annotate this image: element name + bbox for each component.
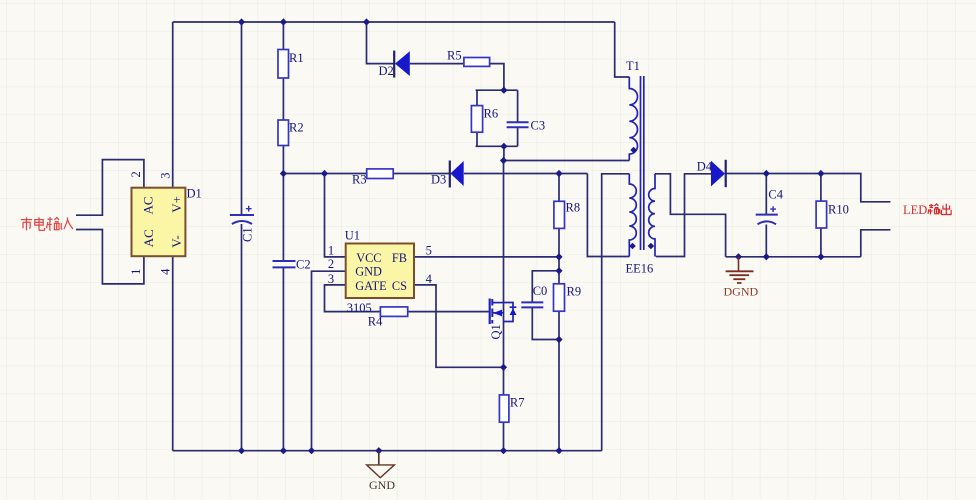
wire U1 pin2 GND [312,271,346,451]
svg-text:D4: D4 [697,160,713,174]
svg-text:C3: C3 [531,119,546,133]
svg-text:AC: AC [140,196,155,214]
junction main line at R8 [555,170,562,177]
transformer T1 primary winding [629,77,637,161]
wire C4 stubs [765,174,767,257]
svg-text:R7: R7 [510,396,525,410]
diode D3 [449,161,451,188]
junction output top C4 [763,170,770,177]
wire U1 pin1 VCC [325,174,346,257]
svg-text:D1: D1 [187,187,202,201]
svg-text:GND: GND [355,264,382,278]
wire R6 stubs [476,90,478,146]
wire R10 stubs [820,174,822,257]
svg-text:C0: C0 [533,284,548,298]
glyph chu (LED output) [942,204,952,215]
transistor Q1 gate bar [489,299,491,325]
resistor R10 [816,201,827,228]
wire clamp top bar [476,89,518,91]
svg-text:D2: D2 [379,64,394,78]
svg-text:R5: R5 [447,48,462,62]
resistor R9 [554,284,565,311]
diode D4 [725,160,727,187]
svg-text:FB: FB [392,251,407,265]
junction main line at R2 C2 [280,170,287,177]
svg-text:R6: R6 [484,107,499,121]
wire secondary top zigzag [655,174,726,257]
transformer T1 core [641,76,644,250]
wire C1 branch lower [241,224,243,451]
junction DGND rail R10 [817,253,824,260]
capacitor C4 plates (polarized) [756,214,778,216]
svg-text:CS: CS [392,279,407,293]
junction DGND rail C4 [763,253,770,260]
wire C2 branch [282,174,284,451]
transistor Q1 channel dashes [491,299,493,324]
svg-text:GATE: GATE [355,279,386,293]
transistor Q1 source arrow [493,310,502,317]
junction bottom rail U1 GND [308,447,315,454]
svg-text:V+: V+ [169,196,184,213]
wire R9 lower [558,311,560,451]
capacitor C4 plus sign [770,206,776,212]
junction clamp bottom [500,143,507,150]
svg-text:V-: V- [169,235,184,248]
op-amp U1 body [346,244,414,299]
wire input lower stub [76,230,144,284]
transistor Q1 body diode arrow [510,308,517,315]
svg-text:C1: C1 [241,227,255,242]
junction bottom rail R9 [555,447,562,454]
winding polarity dot primary [630,147,637,154]
resistor R7 [499,395,509,422]
svg-text:1: 1 [328,243,334,257]
capacitor C1 plus sign [246,206,252,212]
junction FB at R8 [555,253,562,260]
resistor R1 [278,50,289,79]
glyph shi (mains input) [21,217,32,230]
bridge rectifier D1 body [132,188,186,257]
ground DGND bars [726,271,754,283]
svg-text:C4: C4 [768,188,783,202]
wire input upper stub [76,160,144,216]
transformer T1 auxiliary winding [629,174,636,257]
junction drain node [500,157,507,164]
svg-text:AC: AC [141,229,156,247]
svg-text:DGND: DGND [724,285,759,299]
junction C0 bottom at R9 [555,336,562,343]
junction top rail at R1 [280,18,287,25]
junction output top R10 [817,170,824,177]
wire bridge V- drop (pin 4) [172,256,174,451]
junction bottom rail C1 [238,447,245,454]
svg-text:R8: R8 [566,201,581,215]
wire R8 stubs [558,174,560,284]
wire bottom ground rail [173,450,602,452]
ground DGND stub [738,257,740,271]
glyph dian (mains input) [35,217,45,230]
junction top rail at D2 branch [363,18,370,25]
svg-text:U1: U1 [345,229,360,243]
capacitor C1 plates (polarized) [230,214,254,216]
svg-text:R2: R2 [289,121,304,135]
junction CS at Q1 source [500,364,507,371]
svg-text:GND: GND [369,478,395,492]
wire R5 to clamp [490,64,504,91]
glyph ru (mains input) [64,218,73,230]
wire Q1 drain chain [503,161,505,395]
capacitor C0 plates [521,302,543,307]
ground GND triangle [367,465,395,478]
wire U1 pin5 FB [414,256,559,258]
wire clamp to drain node [503,146,505,160]
transistor Q1 source tap [492,312,503,314]
junction main line at U1 VCC [321,170,328,177]
wire D2 to R5 [410,63,464,65]
wire C1 branch upper [241,22,243,215]
junction bottom rail C2 [280,447,287,454]
glyph shu2 (mains input) [47,217,63,230]
svg-text:C2: C2 [296,258,311,272]
wire main VCC line [283,173,587,175]
wire C3 stubs [517,90,519,146]
resistor R6 [471,106,482,133]
wire main end drop to aux bottom [587,174,629,257]
wire U1 pin4 CS [414,285,504,367]
wire R1 R2 branch [282,22,284,174]
capacitor C3 plates [507,122,529,127]
svg-text:R3: R3 [352,173,367,187]
wire clamp bottom bar [476,145,518,147]
glyph shu (LED output) [928,204,941,215]
winding polarity dot secondary [648,243,655,250]
winding polarity dot auxiliary [629,243,636,250]
svg-text:3105: 3105 [347,301,372,315]
svg-text:3: 3 [328,272,334,286]
svg-text:4: 4 [159,268,173,275]
svg-text:T1: T1 [626,59,640,73]
svg-text:3: 3 [159,173,173,179]
svg-text:5: 5 [426,243,432,257]
svg-text:D3: D3 [431,173,446,187]
wire DGND rail [726,256,861,258]
wire top rail [173,21,615,23]
wire C0 branch [532,271,559,340]
wire snubber riser [367,22,395,64]
transistor Q1 drain tap [492,302,503,304]
svg-text:R1: R1 [289,51,304,65]
transistor Q1 body diode loop [504,303,514,322]
transformer T1 secondary winding [649,174,655,257]
svg-text:2: 2 [328,257,334,271]
resistor R4 [380,307,407,317]
wire secondary bottom to D4 [656,174,711,257]
junction C0 top at R8 [555,267,562,274]
wire primary top pin [615,22,630,77]
junction DGND rail stub [735,253,742,260]
ground GND stub [378,451,380,465]
svg-text:EE16: EE16 [626,262,654,276]
svg-text:2: 2 [129,171,143,177]
svg-text:R9: R9 [567,285,582,299]
junction bottom rail R7 [500,447,507,454]
wire R7 to rail [503,422,505,451]
resistor R8 [554,201,565,228]
junction top rail at C1 [238,18,245,25]
wire aux top to ground [602,174,630,451]
junction bottom rail GND stub [375,447,382,454]
wire D4 cathode to output [726,174,891,202]
svg-text:VCC: VCC [356,251,381,265]
resistor R2 [278,120,289,146]
wire bridge V+ riser (pin 3) [172,22,174,188]
capacitor C2 plates [273,261,296,267]
resistor R5 [464,58,490,67]
wire output lower stub [861,230,891,257]
resistor R3 [367,169,394,179]
wire primary bottom [504,160,630,162]
svg-text:Q1: Q1 [489,324,503,339]
diode D2 [393,51,395,78]
junction clamp top [500,87,507,94]
wire U1 pin3 GATE to R4 [325,285,489,312]
svg-text:1: 1 [129,269,143,275]
svg-text:4: 4 [426,272,433,286]
svg-text:R10: R10 [828,202,849,216]
svg-text:LED: LED [903,203,927,217]
svg-text:R4: R4 [368,315,383,329]
